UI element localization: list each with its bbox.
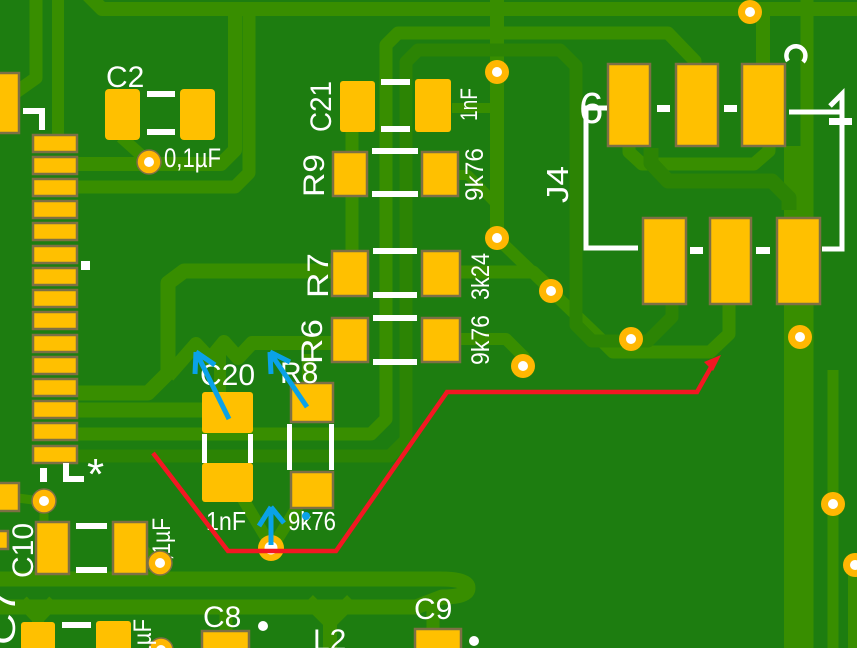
capacitor C20 pads [202,392,253,433]
wire vertical via column x497 [490,0,504,238]
wire band2 V branch bottom-left [22,601,54,618]
wire dark outer U below J4 top row [651,148,789,210]
silk R8 side dashes [287,424,292,470]
svg-text:*: * [87,450,104,499]
wire R6 right pad to via V5 [460,339,524,362]
arrow at via V6 [259,507,284,545]
wire right edge below via V11 [848,572,857,648]
silk connector outline corner bottom [66,463,84,479]
silk pin1 square marker [81,261,90,270]
wire connector pad3 east then up [78,6,249,187]
wire staircase connector to R7 left pad [78,271,333,393]
silk C10 body lines [76,523,107,529]
via V2b below R9 [485,226,509,250]
label J4 pin1 flag [830,94,842,112]
silk J4 outline right [789,112,842,249]
svg-text:C8: C8 [203,601,241,634]
connector J4 pad B2 [710,218,751,304]
wire C10 left pad to via V7 [40,508,49,524]
connector J4 pad T3 [742,64,785,146]
resistor R8 pads [291,383,333,422]
pad left edge top [0,73,19,133]
silk J4 pin2 arc [786,46,805,62]
via V2 right of C21 [485,60,509,84]
wire R8 top pad stub [302,354,314,385]
connector J4 pad T2 [676,64,718,146]
wire wide vertical below J4 B3 [784,146,804,648]
wire zigzag W to R6 left pad [168,342,333,376]
svg-text:C9: C9 [414,593,452,626]
label J4 pin1 crossbar [829,118,852,125]
capacitor C10 pads [36,522,69,574]
silk J4 dash T1-T2 [657,105,670,112]
arrow at R8 [270,352,307,407]
wire C9 stub [427,598,440,631]
arrow at C20 [195,352,229,419]
via V8 top right [738,0,762,24]
resistor R7 pads [332,251,368,296]
via V10 on dark sweep [619,327,643,351]
silk bottom-left comp line [62,622,91,628]
wire C20 top pad stub [214,352,226,393]
silk C20 side dashes [202,434,207,463]
svg-text:1nF: 1nF [456,88,483,121]
wire L2 leg down [323,616,337,648]
resistor R9 pads [333,152,367,196]
silk J4 dash B1-B2 [690,247,703,254]
svg-text:3k24: 3k24 [467,253,495,300]
wire R7 right pad to via V3 [460,272,552,290]
svg-text:9k76: 9k76 [467,315,495,365]
connector J4 pad T1 [608,64,650,146]
wire connector pad2 to via V1 and up [78,6,235,164]
silk J4 dash B2-B3 [756,247,770,254]
svg-text:0,1µF: 0,1µF [164,143,221,173]
pad left edge sliver [0,531,8,549]
wire via V3 branch to J4 B2 [601,302,729,352]
via V7 left [32,489,56,513]
annotation blue arrows [195,352,310,545]
wire R8 bottom pad to via V6 [273,506,298,546]
wire stub into bottom-left pad [32,614,44,630]
wire R9 right pad stub [458,175,495,203]
via V3 [539,279,563,303]
svg-text:9k76: 9k76 [461,148,489,201]
silk J4 outline left [586,108,638,248]
via V5 below R6 [511,354,535,378]
silk C21 body lines [381,79,410,85]
blue dot [302,512,310,520]
svg-text:L2: L2 [313,624,346,648]
wire via V2 to via V3 diagonal [497,238,553,292]
silk dot near C9 [469,636,479,646]
wire C21 right pad stub [452,103,497,113]
svg-text:9k76: 9k76 [288,506,336,536]
bottom left pad B [96,621,131,648]
wire C20 bottom pad to via V6 [243,499,271,546]
svg-text:R9: R9 [298,154,331,197]
capacitor C2 pads [105,89,140,140]
wire C8 stub [220,610,233,632]
via V6 on red route [258,535,284,561]
via V13 right edge partial [843,553,857,577]
silk J4 dash T2-T3 [724,105,737,112]
wire second vertical to connector pad1 [52,0,64,140]
resistor R6 pads [332,318,368,362]
ratsnest red route [153,355,721,551]
connector J4 pad B1 [643,218,686,304]
silk R9 body lines [372,148,418,154]
wire connector to C20 top pad [78,403,205,418]
silk C2 body lines [147,91,175,97]
wire dark net inner corner down right side to J4 B1 [78,50,672,456]
wire vertical to via V11 [828,370,839,648]
silk R7 body lines [373,248,417,254]
bottom left pad A [21,622,55,648]
wire right feed from top edge [801,0,814,648]
wire C10 right pad to via V12 [145,550,154,558]
svg-text:0,1µF: 0,1µF [129,619,157,648]
svg-text:R7: R7 [302,253,335,298]
svg-text:C2: C2 [106,61,144,94]
capacitor C9 pad [415,629,461,648]
wire net connector band up C21 corner east to J4 T2 [78,33,695,434]
wire via V8 down into J4 T3 [756,12,770,66]
svg-text:C7: C7 [0,589,23,645]
silk dot near C8 [258,621,268,631]
svg-text:C10: C10 [7,523,40,578]
wire bottom band1 hairpin band2 [0,579,468,607]
via V1 0,1uF at C2 [137,150,161,174]
pad left edge middle [0,483,19,511]
connector J pads column [33,135,77,463]
wire top-left vertical to left pad [12,0,36,95]
wire C21 left pad down through R9 to R7 [346,130,359,253]
via V12 at C10 [148,551,172,575]
svg-text:J4: J4 [540,166,575,203]
wire left pad to via V7 [18,498,33,500]
wire J4 inner U below top row [629,144,769,164]
via V11 lower right [821,492,845,516]
silk connector tick bottom [40,468,47,482]
connector J4 pad B3 [777,218,820,304]
silk connector outline corner top [23,111,42,130]
svg-text:C21: C21 [305,81,338,132]
via V9 right [788,325,812,349]
capacitor C8 pad [202,631,249,648]
wire top bus [87,0,857,9]
wire via V3 diagonal southeast [551,291,601,339]
wire C2 left pad to via V1 [121,137,151,164]
via V14 bottom edge partial [149,638,173,648]
capacitor C21 pads [340,81,375,132]
wire band2 V branch at L2 [308,600,352,622]
silk R6 body lines [373,315,417,321]
